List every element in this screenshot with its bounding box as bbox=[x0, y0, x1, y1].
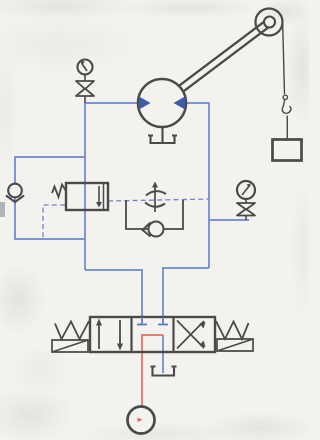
check valve left (bypass) bbox=[6, 184, 24, 202]
tank symbol bbox=[151, 367, 177, 376]
wire: pilot line left (dashed) to spring side bbox=[43, 205, 65, 239]
wire: pilot line right (dashed) to B-line bbox=[108, 199, 209, 201]
pulley sheave bbox=[256, 9, 283, 36]
wire: motor right port to right vertical bbox=[186, 103, 209, 268]
load weight W bbox=[273, 140, 302, 161]
directional control valve DCV 4/3 body bbox=[90, 317, 215, 352]
wire: pump pressure line P (red) bbox=[142, 335, 163, 406]
DCV left position arrows (parallel) bbox=[96, 319, 123, 351]
hydraulic motor M1 bbox=[138, 79, 186, 127]
pressure gauge right bbox=[237, 181, 255, 203]
pressure gauge left bbox=[78, 60, 93, 82]
DCV left return spring bbox=[52, 321, 89, 352]
pilot throttle (adjustable restrictor) bbox=[145, 182, 166, 213]
DCV centre position blocked ports A,B bbox=[137, 317, 168, 325]
wire: A-line into valve port A bbox=[85, 270, 142, 318]
shut-off valve right (under gauge) bbox=[237, 203, 255, 220]
counterbalance valve spring bbox=[52, 185, 66, 198]
crane boom bbox=[179, 19, 272, 91]
hoist cable bbox=[283, 24, 285, 94]
wire: bypass branch around counterbalance valve bbox=[15, 157, 85, 239]
pump P1 bbox=[128, 407, 155, 434]
wire: tank return line T bbox=[162, 335, 164, 373]
pulley hub bbox=[264, 17, 275, 28]
DCV right position arrows (crossed) bbox=[177, 321, 206, 349]
wire: left A-line main vertical bbox=[84, 103, 86, 270]
bypass loop around throttle bbox=[126, 200, 183, 229]
wire: B-line into valve port B bbox=[163, 268, 209, 318]
shut-off valve left (under gauge) bbox=[76, 81, 94, 103]
wire: branch to right gauge bbox=[209, 219, 249, 221]
motor shaft and mounting bracket bbox=[148, 127, 177, 143]
hook bbox=[282, 95, 291, 139]
counterbalance valve CB1 bbox=[66, 183, 108, 210]
check valve in bypass loop bbox=[143, 222, 164, 237]
wire: left A-line horizontal gauge junction to motor left port bbox=[85, 102, 138, 104]
DCV right return spring bbox=[216, 321, 253, 351]
